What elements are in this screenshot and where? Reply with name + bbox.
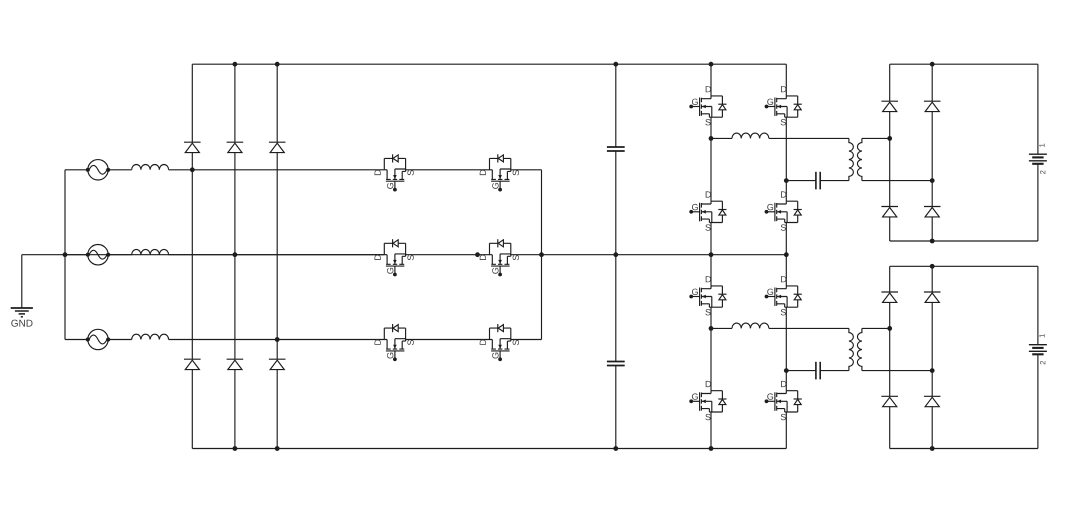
mosfet Q21 — [689, 276, 726, 315]
wire module2 right leg top — [785, 255, 787, 286]
AC source VA — [86, 160, 111, 180]
diode D3 bottom — [269, 359, 286, 369]
wire row C to connector — [511, 339, 542, 341]
mosfet QA2 — [480, 154, 519, 191]
wire leg1 lower — [191, 370, 193, 449]
junction rect1 bottom bus — [930, 239, 935, 244]
junction top bus — [275, 62, 280, 67]
diode D2A2 — [881, 396, 898, 406]
mosfet QC1 — [375, 324, 414, 361]
wire dc-link bus middle — [615, 151, 617, 362]
wire battery1 negative lead — [1037, 164, 1039, 241]
wire mid bus — [65, 254, 384, 256]
diode D2B1 — [924, 292, 941, 302]
wire row B to mid bus — [511, 254, 787, 256]
wire leg3 lower — [276, 370, 278, 449]
wire rect2 legA lower — [889, 407, 891, 449]
junction rect2 bottom bus — [930, 446, 935, 451]
wire GND stem — [21, 255, 23, 308]
diode D3 top — [269, 142, 286, 152]
diode D1A1 — [881, 101, 898, 111]
AC source VB — [86, 245, 111, 265]
wire phase A between mosfets — [406, 169, 490, 171]
mosfet QC2 — [480, 324, 519, 361]
junction phase B / leg2 — [233, 252, 238, 257]
wire rect1 legB lower — [931, 217, 933, 241]
junction bottom bus — [275, 446, 280, 451]
junction secondary top / rect leg — [887, 326, 892, 331]
capacitor C2 — [607, 362, 625, 366]
battery BT1 — [1029, 144, 1047, 174]
junction module2 cap node — [784, 368, 789, 373]
wire rect2 legB upper — [931, 266, 933, 292]
junction module1 inductor node — [709, 136, 714, 141]
wire module2 right leg mid — [785, 307, 787, 391]
wire phase C to source — [65, 339, 88, 341]
wire module1 inductor to transformer — [769, 137, 849, 139]
wire module1 left leg mid — [710, 117, 712, 201]
mosfet Q11 — [689, 86, 726, 125]
wire dc-link bus upper — [615, 64, 617, 147]
diode D2 top — [227, 142, 244, 152]
junction mid bus / right leg — [784, 252, 789, 257]
junction phase C / leg3 — [275, 337, 280, 342]
junction top bus — [613, 62, 618, 67]
wire rect1 legA lower — [889, 217, 891, 241]
wire GND branch — [22, 254, 65, 256]
junction bottom bus — [709, 446, 714, 451]
wire module1 primary lower lead — [786, 180, 816, 182]
junction bottom bus — [233, 446, 238, 451]
wire battery1 positive lead — [1037, 64, 1039, 154]
junction top bus — [233, 62, 238, 67]
inductor L2 — [732, 323, 769, 328]
wire phase B source to inductor — [108, 254, 132, 256]
wire phase C inductor to matrix — [169, 339, 385, 341]
wire rect1 legA upper — [889, 64, 891, 101]
transformer T2 — [849, 328, 862, 370]
wire phase B to source — [65, 254, 88, 256]
junction dot row B — [475, 252, 480, 257]
transformer T1 — [849, 138, 862, 180]
junction secondary top / rect leg — [887, 136, 892, 141]
junction connector / row B — [539, 252, 544, 257]
junction top bus — [709, 62, 714, 67]
wire battery2 positive lead — [1037, 266, 1039, 344]
wire module2 cap to transformer — [820, 370, 849, 372]
ground GND — [11, 308, 33, 327]
junction module2 inductor node — [709, 326, 714, 331]
wire rect1 legB upper — [931, 64, 933, 101]
wire left phase bus — [64, 170, 66, 340]
diode D1B1 — [924, 101, 941, 111]
wire phase C between mosfets — [406, 339, 490, 341]
inductor LB — [132, 249, 169, 254]
AC source VC — [86, 329, 111, 349]
wire rect2 legA upper — [889, 266, 891, 292]
wire rect1 bottom bus — [890, 240, 1038, 242]
wire module2 inductor lead — [711, 327, 732, 329]
wire module1 secondary top — [862, 137, 890, 139]
wire leg2 lower — [234, 370, 236, 449]
battery BT2 — [1029, 334, 1047, 364]
diode D1A2 — [881, 207, 898, 217]
wire module2 left leg bottom — [710, 412, 712, 449]
capacitor Cs2 — [816, 362, 820, 380]
wire phase B between mosfets — [406, 254, 490, 256]
wire rect2 legB middle — [931, 302, 933, 396]
wire rect2 top bus — [890, 265, 1038, 267]
mosfet Q14 — [765, 191, 802, 230]
wire module2 right leg bottom — [785, 412, 787, 449]
wire module1 right leg bottom — [785, 223, 787, 255]
wire matrix output connector — [541, 170, 543, 340]
mosfet QB2 — [480, 239, 519, 276]
wire leg3 upper — [276, 64, 278, 142]
wire module2 left leg top — [710, 255, 712, 286]
capacitor Cs1 — [816, 172, 820, 190]
wire phase B inductor to matrix — [169, 254, 385, 256]
wire leg1 middle — [191, 153, 193, 360]
wire dc-link bus lower — [615, 366, 617, 449]
mosfet Q13 — [689, 191, 726, 230]
wire leg2 middle — [234, 153, 236, 360]
wire leg3 middle — [276, 153, 278, 360]
wire phase C source to inductor — [108, 339, 132, 341]
wire phase A source to inductor — [108, 169, 132, 171]
diode D2A1 — [881, 292, 898, 302]
wire rect1 legB middle — [931, 112, 933, 207]
inductor LA — [132, 165, 169, 170]
mosfet QB1 — [375, 239, 414, 276]
mosfet Q22 — [765, 276, 802, 315]
diode D1B2 — [924, 207, 941, 217]
junction secondary bottom / rect leg — [930, 368, 935, 373]
wire rect1 top bus — [890, 63, 1038, 65]
junction left-bus / GND — [63, 252, 68, 257]
junction rect2 top bus — [930, 264, 935, 269]
wire rect2 legA middle — [889, 302, 891, 396]
wire leg2 upper — [234, 64, 236, 142]
junction bottom bus — [613, 446, 618, 451]
mosfet Q12 — [765, 86, 802, 125]
wire row A to connector — [511, 169, 542, 171]
inductor LC — [132, 334, 169, 339]
diode D2 bottom — [227, 359, 244, 369]
wire module2 primary lower lead — [786, 370, 816, 372]
mosfet Q24 — [765, 381, 802, 420]
junction module1 cap node — [784, 178, 789, 183]
mosfet Q23 — [689, 381, 726, 420]
wire module2 secondary top — [862, 327, 890, 329]
wire module2 secondary bottom — [862, 370, 932, 372]
wire phase A to source — [65, 169, 88, 171]
wire module2 inductor to transformer — [769, 327, 849, 329]
wire main top bus — [192, 63, 786, 65]
diode D1 bottom — [184, 359, 201, 369]
wire module1 inductor lead — [711, 137, 732, 139]
wire module1 left leg bottom — [710, 223, 712, 255]
junction phase A / leg1 — [190, 167, 195, 172]
diode D2B2 — [924, 396, 941, 406]
wire rect2 legB lower — [931, 407, 933, 449]
wire phase A inductor to matrix — [169, 169, 385, 171]
mosfet QA1 — [375, 154, 414, 191]
wire rect1 legA middle — [889, 112, 891, 207]
wire module1 secondary bottom — [862, 180, 932, 182]
wire rect2 bottom bus — [890, 448, 1038, 450]
junction rect1 top bus — [930, 62, 935, 67]
wire module2 left leg mid — [710, 307, 712, 391]
wire battery2 negative lead — [1037, 354, 1039, 448]
wire module1 left leg top — [710, 64, 712, 96]
junction secondary bottom / rect leg — [930, 178, 935, 183]
wire main bottom bus — [192, 448, 786, 450]
junction mid bus / cap bus — [613, 252, 618, 257]
junction mid bus / left leg — [709, 252, 714, 257]
wire module1 right leg top — [785, 64, 787, 96]
diode D1 top — [184, 142, 201, 152]
wire module1 right leg mid — [785, 117, 787, 201]
wire leg1 upper — [191, 64, 193, 142]
inductor L1 — [732, 133, 769, 138]
capacitor C1 — [607, 147, 625, 151]
wire module1 cap to transformer — [820, 180, 849, 182]
